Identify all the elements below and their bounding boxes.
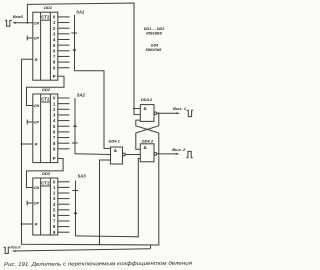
- svg-text:&: &: [114, 148, 118, 153]
- svg-text:3: 3: [53, 196, 56, 201]
- svg-text:&: &: [144, 106, 148, 111]
- svg-text:CN: CN: [34, 20, 40, 25]
- wire: SA1 common to DD4.1 input 1: [75, 71, 111, 149]
- wire: carry P DD2 to CN DD3: [27, 159, 64, 188]
- node: DD4.3 output junction: [158, 153, 160, 155]
- wire: DD4.1 output to DD4.3 input 2: [125, 154, 140, 156]
- wire: output 7 stub of DD1: [58, 55, 70, 57]
- svg-text:DD4.3: DD4.3: [142, 139, 154, 144]
- svg-text:5: 5: [53, 207, 56, 212]
- svg-text:7: 7: [53, 135, 56, 140]
- rotary switch SA1: [71, 15, 77, 71]
- wire: output 9 stub of DD2: [58, 148, 70, 150]
- wire: cross diagonal from DD4.2 to DD4.3 input 1: [136, 126, 159, 150]
- wire: Вход to CN DD1 with arrow: [12, 22, 33, 24]
- svg-text:CP: CP: [34, 120, 40, 125]
- wire: output 8 stub of DD2: [58, 142, 70, 144]
- svg-text:Рис. 191. Делитель с переключа: Рис. 191. Делитель с переключаемым коэфф…: [4, 261, 192, 268]
- wire: output 8 stub of DD3: [58, 226, 70, 228]
- svg-text:1: 1: [53, 101, 56, 106]
- svg-text:CN: CN: [34, 103, 40, 108]
- svg-text:8: 8: [53, 141, 56, 146]
- NAND gate DD4.1: [111, 147, 126, 164]
- node: reset bus at DD3 R: [21, 223, 23, 225]
- wire: SA3 common to DD4.3 input 3: [76, 159, 141, 237]
- node: input junction: [26, 22, 28, 24]
- wire: output 2 stub of DD2: [58, 108, 70, 110]
- wire: top rail from input junction to DD4.2: [27, 3, 134, 109]
- svg-text:P: P: [53, 156, 56, 161]
- svg-text:1: 1: [53, 20, 56, 25]
- svg-text:6: 6: [53, 213, 56, 218]
- NAND gate DD4.2: [140, 105, 156, 122]
- svg-text:6: 6: [53, 48, 56, 53]
- svg-text:CT2: CT2: [41, 96, 50, 101]
- wire: reset bus vertical and bottom feedback line to DD4.3 output: [22, 59, 159, 245]
- wire: output 6 stub of DD2: [58, 131, 70, 133]
- wire: Вых.2 output with arrow: [157, 153, 179, 155]
- wire: rail into DD4.2 inputs 1 and 2: [134, 109, 140, 115]
- wire: output 6 stub of DD3: [58, 214, 70, 216]
- svg-text:DD2: DD2: [42, 87, 51, 92]
- wire: output 7 stub of DD2: [58, 137, 70, 139]
- svg-text:К561ЛА9: К561ЛА9: [146, 48, 163, 52]
- svg-text:4: 4: [53, 202, 56, 207]
- wire: CP stub of DD2 to common: [27, 120, 33, 125]
- svg-text:4: 4: [53, 118, 56, 123]
- pulse symbol output 1: [187, 110, 194, 116]
- wire: output 9 stub of DD1: [58, 67, 70, 69]
- svg-text:0: 0: [53, 96, 56, 101]
- counter DD1: [33, 12, 58, 80]
- counter DD3: [33, 178, 58, 235]
- svg-text:Вых. 1: Вых. 1: [173, 106, 187, 111]
- wire: output 4 stub of DD3: [58, 203, 70, 205]
- svg-text:CP: CP: [34, 36, 40, 41]
- wire: R stub DD2: [22, 143, 33, 145]
- svg-text:SA3: SA3: [78, 174, 87, 179]
- rotary switch SA3: [72, 181, 78, 237]
- svg-text:Вых. 2: Вых. 2: [172, 147, 186, 152]
- wire: output 0 stub of DD1: [58, 16, 70, 18]
- svg-text:DD4.1: DD4.1: [109, 138, 121, 143]
- svg-text:Вход: Вход: [13, 14, 23, 19]
- node: reset bus at DD2 R: [21, 143, 23, 145]
- pulse symbol output 2: [186, 151, 193, 157]
- svg-text:CP: CP: [34, 201, 40, 206]
- svg-text:4: 4: [53, 37, 56, 42]
- wire: carry P DD1 to CN DD2: [27, 76, 65, 105]
- svg-text:SA1: SA1: [76, 10, 85, 15]
- svg-text:R: R: [35, 142, 38, 147]
- svg-text:1: 1: [53, 185, 56, 190]
- svg-text:0: 0: [53, 15, 56, 20]
- wire: output 2 stub of DD3: [58, 192, 70, 194]
- svg-text:0: 0: [53, 179, 56, 184]
- svg-text:R: R: [35, 222, 38, 227]
- svg-text:9: 9: [53, 146, 56, 151]
- wire: CP stub of DD1 to common: [27, 36, 33, 41]
- wire: output 2 stub of DD1: [58, 27, 70, 29]
- wire: output 3 stub of DD1: [58, 33, 70, 35]
- svg-text:8: 8: [53, 60, 56, 65]
- label part types DD1-DD3: [144, 27, 165, 52]
- svg-text:SA2: SA2: [77, 93, 86, 98]
- node: DD4.2 output junction: [158, 112, 160, 114]
- svg-text:9: 9: [53, 230, 56, 235]
- wire: DD4.3 output junction rise: [158, 133, 160, 154]
- svg-text:P: P: [53, 74, 56, 79]
- wire: output 4 stub of DD2: [58, 120, 70, 122]
- wire: output 0 stub of DD3: [58, 181, 70, 183]
- wire: DD4.2 output junction drop: [158, 113, 160, 126]
- svg-text:Уст.0: Уст.0: [10, 245, 20, 249]
- svg-text:9: 9: [53, 65, 56, 70]
- wire: CP stub of DD3 to common: [27, 201, 33, 206]
- wire: output 6 stub of DD1: [58, 50, 70, 52]
- wire: output 5 stub of DD3: [58, 209, 70, 211]
- svg-text:2: 2: [53, 191, 56, 196]
- svg-text:DD1 — DD3: DD1 — DD3: [144, 27, 165, 31]
- wire: output 1 stub of DD1: [58, 22, 70, 24]
- wire: R stub DD1 to reset bus: [22, 58, 33, 60]
- node: DD4.2 input junction: [133, 108, 135, 110]
- wire: output 1 stub of DD3: [58, 186, 70, 188]
- wire: output 5 stub of DD2: [58, 125, 70, 127]
- svg-text:DD4.2: DD4.2: [141, 97, 153, 102]
- wire: output 9 stub of DD3: [58, 231, 70, 233]
- svg-text:8: 8: [53, 224, 56, 229]
- wire: R stub DD3: [22, 223, 33, 225]
- svg-text:CT2: CT2: [41, 15, 50, 20]
- svg-text:&: &: [144, 145, 148, 150]
- svg-text:CN: CN: [34, 185, 40, 190]
- svg-text:R: R: [35, 57, 38, 62]
- svg-text:2: 2: [53, 26, 56, 31]
- rotary switch SA2: [72, 98, 78, 154]
- svg-text:DD3: DD3: [42, 171, 51, 176]
- svg-text:5: 5: [53, 124, 56, 129]
- wire: output 4 stub of DD1: [58, 39, 70, 41]
- counter DD2: [33, 94, 58, 163]
- svg-text:7: 7: [53, 219, 56, 224]
- svg-text:CT2: CT2: [41, 180, 50, 185]
- pulse symbol Уст.0: [4, 247, 11, 253]
- node: feedback junction: [99, 243, 101, 245]
- input pulse symbol (Вход): [5, 20, 12, 26]
- wire: output 3 stub of DD3: [58, 198, 70, 200]
- wire: output 5 stub of DD1: [58, 44, 70, 46]
- wire: output 8 stub of DD1: [58, 61, 70, 63]
- svg-text:3: 3: [53, 113, 56, 118]
- svg-text:6: 6: [53, 130, 56, 135]
- wire: cross diagonal from DD4.3 to DD4.2 input 3: [136, 120, 159, 133]
- wire: SA2 common to DD4.1 input 2: [75, 153, 111, 156]
- svg-text:К561ИЕ8: К561ИЕ8: [146, 32, 163, 36]
- svg-text:2: 2: [53, 107, 56, 112]
- NAND gate DD4.3: [140, 144, 156, 162]
- wire: output 7 stub of DD3: [58, 220, 70, 222]
- svg-text:7: 7: [53, 54, 56, 59]
- svg-text:5: 5: [53, 43, 56, 48]
- svg-text:DD1: DD1: [44, 5, 53, 10]
- svg-text:3: 3: [53, 31, 56, 36]
- wire: output 1 stub of DD2: [58, 103, 70, 105]
- wire: DD4.1 input 3 from feedback line: [100, 160, 111, 244]
- wire: output 3 stub of DD2: [58, 114, 70, 116]
- wire: output 0 stub of DD2: [58, 97, 70, 99]
- wire: Вых.1 output with arrow: [157, 112, 180, 114]
- wire: Уст.0 line with arrow joining feedback line: [12, 245, 151, 252]
